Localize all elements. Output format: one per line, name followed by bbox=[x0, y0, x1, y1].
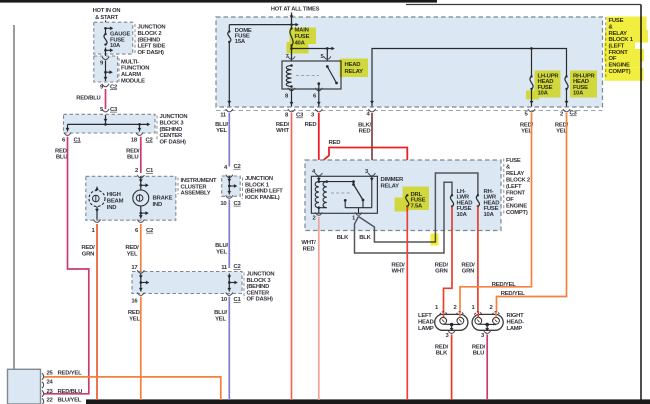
wire head relay pin 6 to connector bbox=[318, 89, 320, 107]
svg-text:C1: C1 bbox=[146, 168, 154, 174]
svg-text:&: & bbox=[506, 165, 510, 171]
wire wht/red dimmer pin 2 down bbox=[318, 217, 320, 400]
dimmer relay pin 4 bbox=[315, 173, 322, 176]
svg-text:GAUGE: GAUGE bbox=[110, 31, 131, 37]
svg-text:FUNCTION: FUNCTION bbox=[121, 66, 149, 72]
svg-text:BLK: BLK bbox=[436, 351, 448, 357]
wire lh-upr fuse to pin 5 bbox=[531, 89, 533, 107]
wire red/blk left headlamp down bbox=[451, 335, 453, 401]
svg-text:RED: RED bbox=[329, 140, 341, 146]
wire blk to rh-lwr fuse bbox=[359, 173, 478, 242]
svg-text:25: 25 bbox=[47, 371, 54, 377]
fuse and relay block 2 label bbox=[503, 159, 505, 216]
junction block 2 internal node bbox=[104, 27, 107, 30]
svg-text:RED/BLU: RED/BLU bbox=[76, 95, 100, 101]
svg-text:JUNCTION: JUNCTION bbox=[245, 176, 273, 182]
junction block 3 lower box bbox=[132, 272, 242, 294]
svg-text:23: 23 bbox=[47, 389, 54, 395]
svg-text:ENGINE: ENGINE bbox=[506, 204, 527, 210]
wire feed to upper head fuses bbox=[372, 49, 567, 107]
svg-text:10: 10 bbox=[220, 201, 227, 207]
dimmer relay pin 2 bbox=[318, 208, 320, 214]
left headlamp connector bbox=[435, 314, 468, 330]
highlight blk wire corner bbox=[431, 234, 439, 246]
svg-text:GRN: GRN bbox=[435, 269, 447, 275]
junction block 1 box bbox=[222, 176, 241, 196]
wire red/yel to bottom bbox=[140, 297, 142, 401]
junction block 2 label bbox=[134, 24, 136, 54]
svg-text:(BEHIND LEFT: (BEHIND LEFT bbox=[245, 189, 283, 195]
red branch to drl fuse bbox=[319, 148, 408, 196]
pin 18 C2 bbox=[136, 133, 143, 136]
svg-text:IND: IND bbox=[153, 202, 163, 208]
wire branch lh-upr fuse bbox=[531, 49, 533, 77]
highlight lh-upr head fuse bbox=[526, 71, 561, 100]
svg-text:MULTI-: MULTI- bbox=[121, 59, 139, 65]
right headlamp bulbs bbox=[475, 317, 482, 324]
svg-text:10A: 10A bbox=[110, 43, 121, 49]
wire blu/yel to junction block 3 lower bbox=[228, 200, 230, 269]
svg-text:BLOCK 3: BLOCK 3 bbox=[160, 121, 185, 127]
svg-text:C1: C1 bbox=[234, 297, 242, 303]
wire red/blu to bottom connector pin 23 bbox=[44, 137, 89, 394]
multi-function alarm module label bbox=[118, 58, 120, 82]
wire blk/red pin 4 to dimmer pin 3 bbox=[371, 113, 373, 175]
instrument cluster label bbox=[177, 178, 179, 195]
svg-text:10A: 10A bbox=[457, 212, 468, 218]
junction block 3 lower label bbox=[243, 273, 245, 300]
highlight rh-upr head fuse bbox=[570, 71, 597, 98]
svg-text:HEAD-: HEAD- bbox=[507, 320, 525, 326]
svg-text:KICK PANEL): KICK PANEL) bbox=[245, 195, 280, 201]
highlight main fuse bbox=[287, 28, 317, 54]
svg-text:LEFT SIDE: LEFT SIDE bbox=[138, 44, 166, 50]
svg-text:OF: OF bbox=[506, 197, 514, 203]
svg-text:BLOCK 2: BLOCK 2 bbox=[506, 178, 530, 184]
cluster pin 1 bbox=[93, 220, 100, 223]
pin 10 C1 lower bbox=[226, 293, 233, 296]
svg-text:HEAD-: HEAD- bbox=[418, 320, 436, 326]
svg-text:BLU/YEL: BLU/YEL bbox=[58, 398, 82, 404]
high beam ind lamp bbox=[89, 191, 105, 207]
svg-text:C2: C2 bbox=[146, 137, 154, 143]
wire rh-upr fuse to pin 2 bbox=[566, 89, 568, 107]
junction block 3 upper box bbox=[64, 114, 156, 133]
svg-text:(BEHIND: (BEHIND bbox=[138, 37, 161, 43]
svg-text:OF DASH): OF DASH) bbox=[160, 139, 187, 145]
svg-text:RED/: RED/ bbox=[461, 262, 475, 268]
wire red/yel rh-upr to right headlamp bbox=[497, 113, 567, 312]
svg-text:C1: C1 bbox=[74, 137, 82, 143]
pin 10 C3 bbox=[226, 195, 233, 198]
junction block 3 internal bus bbox=[105, 115, 107, 124]
junction block 2 lower node bbox=[105, 48, 107, 57]
svg-text:24: 24 bbox=[47, 380, 54, 386]
dimmer relay switch bbox=[353, 182, 355, 185]
svg-text:CLUSTER: CLUSTER bbox=[181, 184, 208, 190]
junction block 1 label bbox=[242, 178, 244, 200]
wire head relay pin 8 to connector bbox=[291, 89, 293, 107]
wire blu/yel from block1 pin 11 bbox=[228, 113, 230, 167]
pin 6 C1 bbox=[64, 133, 71, 136]
svg-text:RED/: RED/ bbox=[128, 310, 142, 316]
svg-text:C2: C2 bbox=[110, 84, 118, 90]
svg-text:11: 11 bbox=[220, 113, 227, 119]
rh-upr head fuse 10A bbox=[565, 77, 568, 90]
svg-text:CENTER: CENTER bbox=[247, 290, 271, 296]
svg-text:BEAM: BEAM bbox=[107, 199, 124, 205]
svg-text:GRN: GRN bbox=[82, 251, 94, 257]
svg-text:HOT IN ON: HOT IN ON bbox=[93, 8, 121, 14]
svg-text:RED/: RED/ bbox=[276, 122, 290, 128]
svg-text:10A: 10A bbox=[484, 212, 495, 218]
svg-text:HOT AT ALL TIMES: HOT AT ALL TIMES bbox=[271, 7, 320, 13]
wire red/blu to instrument cluster bbox=[140, 137, 142, 173]
svg-text:C3: C3 bbox=[296, 113, 304, 119]
svg-text:RED/YEL: RED/YEL bbox=[501, 291, 526, 297]
svg-text:RED: RED bbox=[303, 246, 315, 252]
node below main fuse bbox=[291, 46, 293, 62]
svg-text:GRN: GRN bbox=[462, 269, 474, 275]
junction block 3 upper label bbox=[156, 116, 158, 142]
svg-text:BLOCK 2: BLOCK 2 bbox=[138, 31, 162, 37]
svg-text:RED/: RED/ bbox=[435, 262, 449, 268]
head relay HEAD RELAY bbox=[282, 61, 341, 89]
left headlamp pin 3 bbox=[448, 331, 455, 334]
svg-text:RED/: RED/ bbox=[126, 148, 140, 154]
pin 22 bbox=[42, 398, 44, 404]
svg-text:BLU: BLU bbox=[127, 155, 138, 161]
svg-text:18: 18 bbox=[131, 137, 138, 143]
svg-text:C2: C2 bbox=[234, 164, 242, 170]
svg-text:RED: RED bbox=[359, 129, 371, 135]
svg-text:BLK: BLK bbox=[359, 235, 371, 241]
head relay link dashed bbox=[296, 75, 319, 77]
svg-text:ASSEMBLY: ASSEMBLY bbox=[181, 191, 211, 197]
svg-text:DIMMER: DIMMER bbox=[381, 177, 405, 183]
svg-text:RED/: RED/ bbox=[81, 245, 95, 251]
svg-text:FUSE: FUSE bbox=[506, 158, 521, 164]
highlight drl fuse bbox=[395, 187, 430, 212]
dimmer relay pin 3 bbox=[368, 173, 375, 176]
svg-text:WHT: WHT bbox=[276, 128, 289, 134]
svg-text:RED/: RED/ bbox=[125, 245, 139, 251]
bottom border bar bbox=[86, 399, 650, 404]
svg-text:BLK/: BLK/ bbox=[358, 122, 371, 128]
svg-text:WHT: WHT bbox=[392, 269, 405, 275]
svg-text:IND: IND bbox=[107, 205, 117, 211]
wire red/blu right headlamp down bbox=[486, 335, 488, 401]
wire branch to head relay pin 5 bbox=[292, 48, 328, 50]
svg-text:OF DASH): OF DASH) bbox=[138, 50, 165, 56]
brake ind lower wire bbox=[140, 206, 142, 219]
svg-text:BLOCK 1: BLOCK 1 bbox=[245, 182, 270, 188]
svg-text:WHT/: WHT/ bbox=[301, 240, 316, 246]
svg-text:YEL: YEL bbox=[129, 316, 140, 322]
right headlamp pin 3 bbox=[484, 331, 491, 334]
svg-text:LAMP: LAMP bbox=[418, 326, 434, 332]
svg-text:RIGHT: RIGHT bbox=[507, 313, 525, 319]
svg-text:15A: 15A bbox=[235, 39, 246, 45]
pin 23 bbox=[42, 390, 44, 396]
svg-text:LEFT: LEFT bbox=[418, 313, 432, 319]
svg-text:JUNCTION: JUNCTION bbox=[160, 114, 188, 120]
svg-text:C2: C2 bbox=[234, 264, 242, 270]
module internal wire bbox=[105, 61, 107, 82]
wire red/grn lh-lwr fuse to left headlamp bbox=[444, 206, 453, 312]
multi-function alarm module box bbox=[94, 56, 118, 82]
wire branch to dome fuse bbox=[229, 24, 291, 26]
svg-text:17: 17 bbox=[131, 265, 138, 271]
wire red/grn high beam down bbox=[96, 224, 98, 400]
svg-text:HIGH: HIGH bbox=[107, 192, 121, 198]
svg-text:BLK: BLK bbox=[337, 235, 349, 241]
drl fuse 7.5A bbox=[406, 195, 409, 206]
svg-text:YEL: YEL bbox=[127, 251, 138, 257]
wire red/grn rh-lwr fuse to right headlamp bbox=[477, 206, 479, 312]
svg-text:YEL: YEL bbox=[215, 316, 226, 322]
lh-upr head fuse 10A bbox=[530, 77, 533, 90]
wire red pin 3 to dimmer relay bbox=[318, 113, 320, 175]
svg-text:ALARM: ALARM bbox=[121, 72, 141, 78]
wire red/yel lh-upr to left headlamp bbox=[460, 113, 532, 312]
svg-text:16: 16 bbox=[131, 298, 138, 304]
top right border line bbox=[406, 4, 641, 6]
bottom left connector box bbox=[8, 369, 41, 404]
wire blu/yel to bottom bbox=[228, 297, 230, 401]
svg-text:C3: C3 bbox=[570, 111, 578, 117]
svg-text:LAMP: LAMP bbox=[507, 326, 523, 332]
fuse and relay block 1 box bbox=[216, 17, 603, 107]
cluster pin 6 C2 bbox=[137, 220, 144, 223]
svg-text:& START: & START bbox=[95, 15, 118, 21]
pin 17 bbox=[137, 270, 144, 273]
wire dome fuse to pin 11 bbox=[228, 42, 230, 107]
right headlamp connector bbox=[472, 314, 503, 330]
svg-text:(BEHIND: (BEHIND bbox=[160, 127, 183, 133]
pin 25 bbox=[42, 373, 44, 379]
highlight head relay bbox=[340, 59, 369, 78]
svg-text:BLU: BLU bbox=[56, 155, 67, 161]
svg-text:RELAY: RELAY bbox=[381, 184, 400, 190]
left page border bbox=[13, 25, 15, 404]
wire red/wht drl fuse down bbox=[406, 206, 408, 400]
rh-lwr head fuse 10A bbox=[476, 195, 479, 206]
high beam lower wire bbox=[96, 207, 98, 220]
brake ind lamp bbox=[133, 190, 149, 206]
wire red/yel brake ind down bbox=[140, 224, 142, 272]
high beam upper stub bbox=[96, 187, 98, 191]
head relay pin 8 label bbox=[288, 88, 295, 91]
svg-text:RED/BLU: RED/BLU bbox=[58, 389, 83, 395]
lh-lwr head fuse 10A bbox=[450, 195, 453, 206]
svg-text:(LEFT: (LEFT bbox=[506, 184, 522, 190]
svg-text:BRAKE: BRAKE bbox=[153, 196, 173, 202]
jb3 lower right internal bbox=[228, 274, 230, 292]
head relay switch bbox=[326, 65, 329, 68]
svg-text:RED/: RED/ bbox=[472, 344, 486, 350]
svg-text:RED/: RED/ bbox=[435, 344, 449, 350]
gauge fuse 10A bbox=[105, 29, 107, 34]
svg-text:MODULE: MODULE bbox=[121, 79, 145, 85]
svg-text:RELAY: RELAY bbox=[506, 171, 524, 177]
wire blk to lh-lwr fuse bbox=[355, 182, 453, 253]
wire red/blu module to junction block 3 bbox=[105, 89, 107, 109]
svg-text:C3: C3 bbox=[110, 107, 118, 113]
wire red/yel bottom horizontal bbox=[44, 377, 221, 400]
highlight fuse and relay block 1 label bbox=[604, 17, 648, 81]
svg-text:JUNCTION: JUNCTION bbox=[247, 272, 275, 278]
svg-text:INSTRUMENT: INSTRUMENT bbox=[181, 178, 217, 184]
svg-text:RED/YEL: RED/YEL bbox=[58, 371, 83, 377]
top border bar bbox=[0, 0, 437, 3]
svg-text:BLOCK 3: BLOCK 3 bbox=[247, 278, 272, 284]
head relay pin 6 label bbox=[315, 88, 322, 91]
svg-text:BLU/: BLU/ bbox=[214, 310, 227, 316]
block1 connector pins bbox=[226, 109, 233, 112]
jb3 lower left internal bbox=[140, 274, 142, 292]
pin 16 bbox=[137, 293, 144, 296]
svg-text:10: 10 bbox=[221, 297, 228, 303]
left headlamp bulbs bbox=[440, 317, 447, 324]
svg-text:OF DASH): OF DASH) bbox=[247, 297, 274, 303]
main fuse 40A bbox=[290, 29, 293, 46]
dimmer relay coils bbox=[318, 176, 320, 181]
right page border bbox=[640, 5, 642, 402]
svg-text:CENTER: CENTER bbox=[160, 133, 184, 139]
svg-text:RED/: RED/ bbox=[391, 262, 405, 268]
svg-text:JUNCTION: JUNCTION bbox=[138, 25, 166, 31]
svg-text:(BEHIND: (BEHIND bbox=[247, 284, 270, 290]
wire into junction block 2 bbox=[105, 21, 107, 29]
wire red/wht from pin 8 C3 down bbox=[291, 113, 293, 400]
wire hot feed into block 1 bbox=[291, 13, 293, 29]
svg-text:11: 11 bbox=[221, 265, 228, 271]
svg-text:FRONT: FRONT bbox=[506, 191, 526, 197]
fuse and relay block 2 box bbox=[305, 160, 501, 231]
head relay coil bbox=[290, 64, 293, 67]
svg-text:YEL: YEL bbox=[216, 249, 227, 255]
junction block 1 internal bbox=[228, 176, 230, 195]
svg-text:BLU/: BLU/ bbox=[215, 122, 228, 128]
svg-text:C3: C3 bbox=[234, 201, 242, 207]
dimmer relay pin 1 bbox=[358, 208, 360, 214]
pin 24 bbox=[42, 382, 44, 388]
svg-text:BLU/: BLU/ bbox=[215, 243, 228, 249]
svg-text:RED/YEL: RED/YEL bbox=[492, 282, 517, 288]
cluster brake feed bbox=[140, 176, 142, 190]
fuse and relay block 1 connector face line bbox=[216, 110, 603, 112]
dome fuse 15A bbox=[228, 32, 231, 43]
dimmer relay box bbox=[311, 176, 377, 213]
junction block 2 box bbox=[94, 22, 133, 54]
dimmer relay link dashed bbox=[331, 192, 352, 194]
svg-text:YEL: YEL bbox=[216, 128, 227, 134]
svg-text:C2: C2 bbox=[146, 228, 154, 234]
instrument cluster box bbox=[86, 176, 176, 220]
svg-text:RED: RED bbox=[305, 122, 317, 128]
block 1 label FUSE & RELAY BLOCK 1 bbox=[605, 17, 607, 77]
svg-text:COMPT): COMPT) bbox=[506, 210, 528, 216]
svg-text:BLU: BLU bbox=[473, 351, 484, 357]
svg-text:22: 22 bbox=[47, 398, 54, 404]
